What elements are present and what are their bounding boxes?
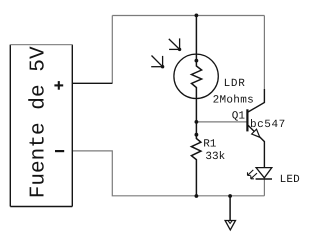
svg-text:bc547: bc547 <box>250 119 286 131</box>
svg-text:2Mohms: 2Mohms <box>213 95 254 107</box>
svg-text:R1: R1 <box>203 138 217 150</box>
svg-text:LDR: LDR <box>224 78 246 90</box>
svg-text:Fuente de 5V: Fuente de 5V <box>27 46 51 198</box>
svg-text:33k: 33k <box>205 151 225 163</box>
svg-text:LED: LED <box>280 174 301 186</box>
svg-text:Q1: Q1 <box>232 110 246 122</box>
